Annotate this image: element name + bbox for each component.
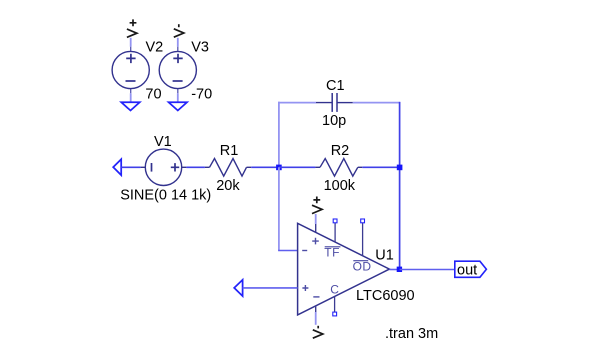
svg-text:C: C [330,283,339,297]
wire V3 ground stub [177,93,179,102]
node flag "-" below op-amp [313,326,323,338]
port out [455,261,487,277]
ground below V3 [169,102,187,110]
ground below V2 [121,102,139,110]
svg-text:V3: V3 [191,40,209,56]
wire R2 to right node [362,166,399,168]
voltage source V1 [141,149,187,185]
svg-text:LTC6090: LTC6090 [356,288,415,304]
wire C1 left horizontal [278,102,316,104]
svg-text:C1: C1 [326,78,345,94]
wire V2 flag stub [130,38,132,47]
wire V- pin to flag [315,312,317,325]
svg-text:V1: V1 [154,134,172,150]
svg-text:10p: 10p [322,113,346,129]
pin C [334,296,336,312]
wire V3 flag stub [177,38,179,47]
svg-text:-70: -70 [191,87,212,103]
op-amp V+ label [312,238,319,245]
op-amp inverting input label [302,250,307,252]
resistor R2 [315,159,362,177]
wire V2 ground stub [130,93,132,102]
pin OD [362,223,364,256]
voltage source V2 [112,47,149,94]
wire inverting feed down [278,167,280,250]
voltage source V3 [159,47,196,94]
svg-text:TF: TF [324,246,340,260]
wire ground to noninverting input [243,287,298,289]
svg-text:70: 70 [145,86,161,102]
wire inverting feed right to op-amp [278,250,298,252]
wire node A to R2 [279,166,316,168]
resistor R1 [205,159,251,177]
op-amp noninverting input label [302,285,308,291]
wire V+ flag to op-amp [315,214,317,224]
wire op-amp output to junction [389,269,399,271]
node flag "-" at V3 top [174,24,184,37]
svg-text:OD: OD [353,259,372,273]
wire C1 right horizontal [353,102,400,104]
svg-text:out: out [457,262,477,278]
junction output node [397,267,402,272]
svg-text:100k: 100k [324,178,356,194]
svg-text:U1: U1 [375,248,394,264]
node flag "+" at V2 top [127,19,137,37]
svg-text:.tran 3m: .tran 3m [385,326,438,342]
wire output junction to port [400,269,455,271]
wire R1 to node A [251,166,279,168]
svg-text:V2: V2 [146,40,164,56]
node flag "+" above op-amp [312,197,322,214]
junction right of R2 [397,165,403,171]
capacitor C1 [316,93,353,112]
wire ground to V1 [121,166,140,168]
svg-text:R1: R1 [220,143,239,159]
svg-text:SINE(0 14 1k): SINE(0 14 1k) [120,187,211,203]
pin TF [334,223,336,242]
junction node A [276,165,282,171]
op-amp V- label [313,296,319,298]
ground left of V1 (rotated) [113,159,121,175]
wire right vertical (C1 to output node) [399,102,401,269]
wire V1 to R1 [186,166,205,168]
svg-text:R2: R2 [331,143,350,159]
op-amp U1 triangle [298,223,390,315]
ground left of noninverting input (rotated) [234,280,242,296]
svg-text:20k: 20k [216,178,240,194]
wire node A up to C1 level [278,102,280,168]
op-amp V+ pin lead [315,224,317,232]
op-amp V- pin lead [315,306,317,312]
